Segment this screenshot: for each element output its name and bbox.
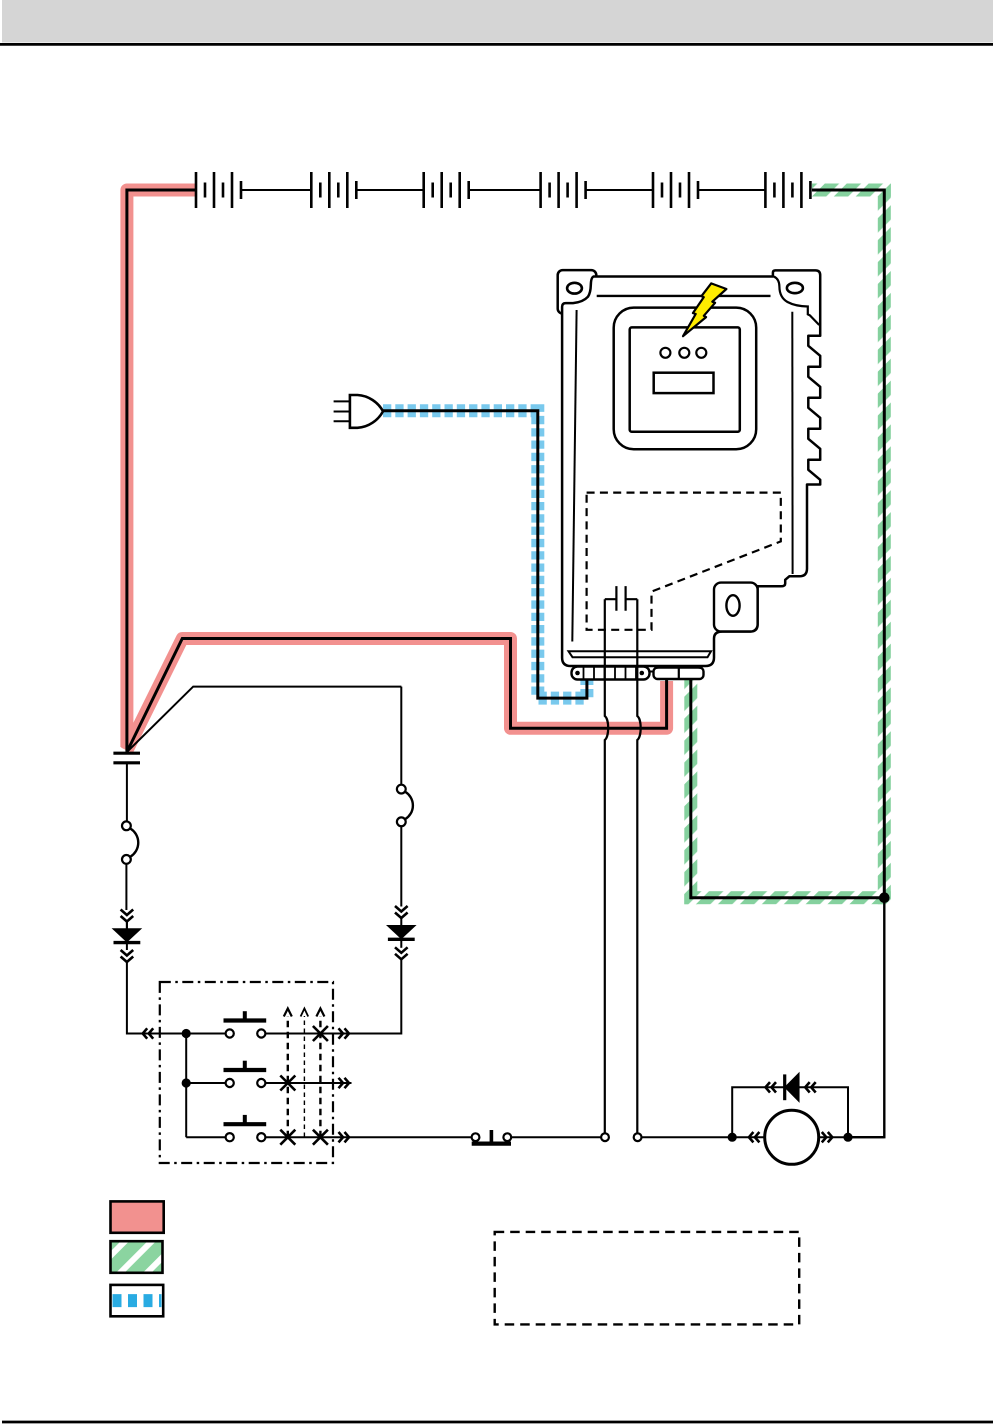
diode D3 triangle [785,1074,799,1101]
connector chevrons right row2 [339,1078,350,1088]
note dashed rectangle [495,1232,800,1325]
wire lighting branch down [400,687,402,785]
linkage rod 1 arrow [284,1009,292,1017]
breaker CB2 contact top [397,785,406,794]
wire green hatched band: right vertical run [878,184,891,905]
wire red core: junction to charger [127,639,667,753]
breaker CB1 contact top [122,821,131,830]
node motor left dot [728,1133,737,1142]
connector chevrons down (right branch upper) [395,906,408,918]
wire battery 1-2 [241,189,311,191]
charger terminal block left [572,667,650,680]
linkage rod 3 arrow [316,1009,324,1017]
splice X row2 [280,1076,295,1091]
switch S1 actuator [243,1011,247,1020]
charger top-right mounting hole [787,283,803,293]
wire AC line right vertical with jog [637,599,640,1133]
wire red highlight band: battery positive to junction [127,190,197,747]
wire row2 segments [186,1082,351,1084]
key switch contacts [472,1133,480,1141]
node green junction dot [879,892,890,903]
charger DC connector right [654,668,704,680]
wire blue core: AC cord [383,411,587,698]
terminal block dividers [584,668,637,680]
breaker CB2 arc [405,792,412,819]
wire right branch to switch box row 1 [340,960,401,1034]
wire left column to switch box [127,963,186,1034]
legend blue dashed box [111,1285,164,1316]
legend red box [111,1201,164,1232]
wire node to motor [732,1136,765,1138]
charger top inner line [597,295,771,297]
lightning bolt icon [683,283,726,336]
connector chevrons down (left column lower) [121,950,134,962]
wire row3 segments [186,1136,472,1138]
diode D3 cathode bar [783,1074,786,1100]
connector chevrons down (left column upper) [121,910,134,922]
battery 1 [196,172,241,208]
wire green core: battery negative to junction dot [812,190,884,898]
charger right inner fillet [774,277,819,326]
wire blue dashed band: AC cord [383,411,587,698]
charger bottom-right mounting hole [726,595,739,616]
linkage dashed rod 3 [319,1016,321,1137]
breaker CB2 contact bottom [397,817,406,826]
linkage dashed rod 2 [303,1016,305,1137]
wire diode D1 down [126,922,128,950]
wire battery 2-3 [356,189,423,191]
charger LED 3 [696,348,706,358]
AC plug prongs [334,401,350,421]
linkage dashed rod 1 [287,1016,289,1137]
wire green hatched band: bottom horizontal run [684,891,891,904]
charger top-left mounting tab [558,270,597,314]
node motor right dot [843,1133,852,1142]
switch assembly dash-dot enclosure [160,982,333,1163]
switch S3 actuator [243,1115,247,1124]
header gray bar [2,0,993,43]
breaker CB1 contact bottom [122,855,131,864]
charger display bezel [614,308,757,450]
charger display panel [630,327,740,431]
node dot row2 [182,1078,191,1087]
wire key switch to AC line terminal [511,1136,601,1138]
wire red highlight band: junction to charger DC input [127,639,667,751]
charger bottom lip [569,651,712,657]
charger right inner line [791,312,793,574]
AC line terminal left [601,1133,609,1141]
connector chevrons motor left [749,1132,760,1142]
key switch actuator [490,1130,494,1144]
switch S1 bar [224,1018,267,1022]
diode D1 triangle [114,929,141,942]
motor M [765,1110,819,1164]
linkage rod 2 arrow [301,1009,309,1017]
wire motor to right node [819,1136,885,1138]
charger LED 2 [679,348,689,358]
wire AC line left vertical with jog [605,599,608,1133]
charger AC inlet prongs [605,586,638,611]
battery 3 [424,172,469,208]
switch S3 bar [224,1122,267,1126]
junction terminal bars [113,753,140,763]
wire junction below bars down [126,763,128,822]
connector chevrons flyback right [805,1082,816,1092]
connector chevrons motor right [822,1132,833,1142]
breaker CB1 arc [131,829,139,857]
wire flyback branch [732,1087,848,1137]
header rule [0,43,993,46]
battery 2 [311,172,356,208]
connector chevrons right row1 [339,1028,350,1038]
wire diode D2 down [400,939,402,948]
charger bottom-right mounting tab [714,583,758,632]
battery 4 [541,172,586,208]
wire terminal to motor node [642,1136,733,1138]
wire battery 5-6 [698,189,765,191]
charger LED 1 [660,348,670,358]
wire row1 segments [186,1033,401,1035]
wire junction to lighting circuit (thin diagonal) [127,687,402,752]
key switch bar [472,1141,511,1145]
charger top-left mounting hole [567,283,582,294]
battery 6 [765,172,810,208]
diode D2 cathode bar [388,938,415,941]
terminal block screw right [640,671,645,676]
charger display window [654,373,714,393]
connector chevrons left (box input) [143,1028,154,1038]
footer rule [2,1421,993,1424]
wire green core: charger negative to junction dot [691,679,885,898]
wire green hatched band: battery negative top run [812,184,891,197]
wire red core: battery positive to junction [127,190,197,752]
wire breaker to connector [125,864,127,910]
charger internal dashed compartment [587,493,781,630]
diode D2 triangle [388,926,415,939]
AC plug body [350,395,383,428]
wire connector to diode D2 [400,919,402,926]
switch S2 bar [224,1068,267,1072]
wire motor feed right vertical [848,898,884,1137]
battery 5 [653,172,698,208]
splice X row1 [313,1026,328,1041]
switch S2 actuator [243,1061,247,1070]
switch S1 contacts [226,1029,234,1037]
switch S3 contacts [226,1133,234,1141]
diode D1 cathode bar [114,941,141,944]
connector chevrons flyback left [766,1082,777,1092]
wire breaker CB2 down [400,826,402,906]
wire battery 3-4 [469,189,541,191]
charger left inner line [572,310,576,642]
battery charger unit body outline [562,270,820,666]
terminal block screw left [575,671,580,676]
wire box left bus [185,1034,187,1138]
switch S2 contacts [226,1079,234,1087]
wire battery 4-5 [586,189,653,191]
wire green hatched band: charger negative vertical run [684,679,697,904]
node dot row1 [182,1029,191,1038]
connector chevrons down (right branch lower) [395,947,408,959]
splice X row3 right [313,1130,328,1145]
splice X row3 left [280,1130,295,1145]
legend blue dashes [113,1294,162,1307]
wire connector to diode D1 [126,922,128,929]
AC line terminal right [634,1133,642,1141]
legend green hatched box [111,1241,163,1273]
connector chevrons right row3 [339,1132,350,1142]
